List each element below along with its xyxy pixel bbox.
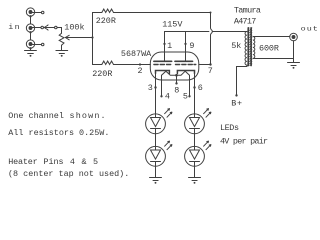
svg-text:8: 8	[174, 86, 179, 96]
svg-text:4: 4	[70, 157, 75, 167]
svg-text:B+: B+	[231, 98, 242, 108]
svg-text:115V: 115V	[162, 19, 183, 29]
svg-text:6: 6	[198, 83, 203, 93]
svg-text:5k: 5k	[231, 41, 241, 51]
svg-text:out: out	[301, 26, 319, 33]
svg-text:(8 center tap not used).: (8 center tap not used).	[8, 169, 129, 179]
svg-text:2: 2	[138, 66, 143, 76]
svg-text:4: 4	[165, 92, 170, 102]
svg-text:1: 1	[167, 41, 172, 51]
svg-text:5: 5	[183, 92, 188, 102]
svg-text:220R: 220R	[92, 69, 112, 79]
svg-text:One channel: One channel	[8, 111, 64, 121]
svg-text:100k: 100k	[64, 23, 84, 33]
svg-text:220R: 220R	[96, 16, 116, 26]
svg-text:All resistors 0.25W.: All resistors 0.25W.	[8, 128, 109, 138]
svg-text:Pins: Pins	[43, 157, 63, 167]
svg-text:600R: 600R	[259, 44, 279, 54]
svg-text:5: 5	[93, 157, 98, 167]
svg-text:shown.: shown.	[70, 111, 107, 121]
svg-text:4V per pair: 4V per pair	[220, 136, 268, 146]
svg-text:A4717: A4717	[234, 17, 256, 27]
svg-text:9: 9	[189, 41, 194, 51]
svg-text:5687WA: 5687WA	[121, 49, 152, 59]
svg-text:Heater: Heater	[8, 157, 37, 167]
svg-text:LEDs: LEDs	[220, 123, 239, 133]
svg-text:&: &	[82, 157, 87, 167]
svg-text:3: 3	[148, 83, 153, 93]
svg-text:Tamura: Tamura	[234, 6, 261, 16]
svg-text:7: 7	[208, 66, 213, 76]
svg-text:in: in	[8, 24, 21, 32]
